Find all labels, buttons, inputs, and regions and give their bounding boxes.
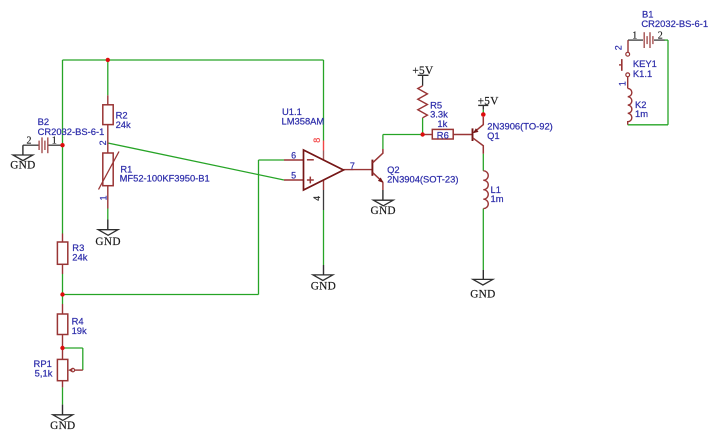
wire R3 bottom to node (62, 274, 64, 295)
ground GND (Q2) (373, 190, 393, 206)
potentiometer RP1 (34, 348, 83, 387)
wire +5V to Q1 emitter dot (482, 110, 484, 113)
wire horizontal to opamp pin6 (259, 159, 285, 161)
wire green corner to B1 (664, 39, 668, 41)
Q1 emitter (474, 117, 483, 133)
svg-text:1: 1 (98, 195, 108, 200)
U1 minus input mark (307, 159, 314, 161)
inductor K2 (628, 88, 649, 124)
svg-text:2: 2 (658, 31, 663, 42)
wire R1 bottom to GND (107, 209, 109, 220)
junction node (R4/RP1 loop) (60, 346, 64, 350)
U1 pin 8 stub (323, 141, 325, 151)
svg-text:24k: 24k (72, 252, 87, 263)
svg-text:GND: GND (50, 420, 75, 432)
resistor R6 (423, 118, 473, 140)
U1 plus input mark (307, 179, 314, 181)
U1 pin 4 stub (323, 180, 325, 190)
svg-text:6: 6 (291, 150, 296, 160)
battery B2 (23, 116, 104, 153)
KEY1 pin 1 stub (627, 77, 629, 89)
B1 plate short (652, 36, 654, 44)
wire B2 pin2 left (23, 144, 39, 146)
resistor R4 (57, 304, 87, 348)
svg-text:2N3904(SOT-23): 2N3904(SOT-23) (387, 174, 458, 185)
RP1 wiper (75, 369, 83, 371)
wire RP1 feedback loop right (82, 348, 84, 370)
svg-text:1: 1 (632, 31, 637, 42)
wire opamp pin8 to top rail (323, 60, 325, 141)
B2 plate short (44, 141, 46, 150)
wire B1 pin1 left (628, 39, 643, 41)
wire Q1 collector to L1 (482, 154, 484, 171)
wire vertical up to pin6 level (258, 160, 260, 295)
wire B2 pin1 right (48, 144, 63, 146)
svg-text:GND: GND (95, 236, 120, 248)
junction node (top rail / R2) (106, 58, 110, 62)
transistor Q2 (354, 149, 459, 190)
B2 plate tall (41, 137, 43, 153)
wire B1 pin2 right (654, 39, 665, 41)
Q2 base bar (371, 160, 373, 176)
resistor R3 (57, 234, 87, 275)
svg-text:R6: R6 (437, 129, 449, 140)
wire RP1 feedback loop top (63, 347, 83, 349)
svg-text:Q1: Q1 (487, 130, 500, 141)
U1 pin 5 stub (284, 179, 304, 181)
ground GND (R1) (98, 220, 118, 236)
junction node (+5V / Q1 emitter) (481, 112, 486, 117)
KEY1 actuator stem (619, 64, 622, 66)
B1 plate short (646, 36, 648, 44)
Q2 emitter (373, 173, 383, 183)
Q1 collector (473, 138, 484, 154)
svg-text:1m: 1m (635, 108, 648, 119)
ground GND (L1) (473, 270, 493, 285)
svg-text:GND: GND (371, 205, 396, 217)
wire opamp pin4 to GND (323, 210, 325, 265)
Q1 base bar (472, 128, 474, 141)
R1 diagonal stroke (99, 152, 120, 190)
B1 plate tall (643, 32, 645, 48)
junction node (R3/R4/opamp wire) (60, 292, 64, 296)
wire right vertical to B1 pin2 (667, 40, 669, 125)
svg-text:24k: 24k (116, 119, 131, 130)
battery B1 (628, 8, 708, 48)
ground GND (U1) (313, 265, 333, 281)
KEY1 actuator bar (621, 59, 623, 71)
svg-text:2: 2 (614, 45, 624, 50)
svg-text:1: 1 (617, 81, 627, 86)
power flag +5V (R5) (412, 65, 434, 86)
wire pin7 to Q2 base (354, 169, 373, 171)
svg-text:1m: 1m (491, 193, 504, 204)
inductor L1 (483, 171, 503, 209)
ground GND (RP1) (53, 405, 73, 421)
svg-text:GND: GND (311, 280, 336, 292)
wire diagonal R2/R1 node to opamp pin5 (108, 143, 284, 180)
KEY1 contact circle top (626, 52, 630, 56)
resistor R2 (103, 95, 131, 143)
svg-text:GND: GND (470, 289, 495, 301)
U1 pin 7 stub (344, 169, 354, 171)
op-amp U1.1 (282, 106, 355, 210)
B2 plate tall (47, 137, 49, 153)
wire Q2 collector up (382, 135, 384, 150)
U1 triangle body (304, 150, 344, 190)
resistor R5 (418, 86, 448, 120)
svg-text:GND: GND (10, 160, 35, 172)
svg-text:LM358AM: LM358AM (282, 115, 325, 126)
KEY1 pin 2 stub (627, 40, 629, 52)
junction node (B2 / left wire) (60, 143, 64, 147)
svg-text:1: 1 (52, 136, 57, 147)
wire top rail to R2 top (107, 60, 109, 95)
wire R5 bottom to junction (422, 118, 424, 135)
KEY1 contact circle bottom (626, 73, 630, 77)
ground GND (B2) (13, 145, 33, 160)
svg-text:5,1k: 5,1k (35, 367, 53, 378)
svg-text:19k: 19k (72, 325, 87, 336)
svg-text:MF52-100KF3950-B1: MF52-100KF3950-B1 (120, 173, 210, 184)
wire node to R4 top (62, 295, 64, 305)
B1 plate tall (649, 32, 651, 48)
thermistor R1 (98, 140, 210, 208)
B2 plate short (38, 141, 40, 150)
svg-text:K1.1: K1.1 (633, 68, 652, 79)
junction node (R5/R6/Q2) (420, 132, 424, 136)
Q2 collector (373, 149, 383, 163)
svg-text:2: 2 (98, 140, 108, 145)
svg-text:8: 8 (312, 138, 322, 143)
wire L1 to GND (482, 209, 484, 270)
transistor Q1 (473, 117, 553, 154)
wire K2 bottom horizontal (628, 124, 668, 126)
svg-text:5: 5 (291, 171, 296, 181)
wire RP1 bottom to GND (62, 387, 64, 404)
U1 pin 4 wire dark (323, 190, 325, 210)
svg-text:4: 4 (312, 196, 322, 201)
U1 pin 6 stub (284, 159, 304, 161)
wire top rail (63, 59, 324, 61)
svg-text:CR2032-BS-6-1: CR2032-BS-6-1 (641, 18, 708, 29)
wire left vertical (top rail to R3) (62, 60, 64, 234)
svg-text:2: 2 (27, 136, 32, 147)
power flag +5V (Q1) (478, 96, 500, 110)
switch KEY1 (614, 40, 657, 88)
wire node horizontal to opamp column (63, 294, 259, 296)
wire Q2 collector to R5/R6 junction (383, 134, 423, 136)
svg-text:1k: 1k (437, 118, 447, 129)
svg-text:CR2032-BS-6-1: CR2032-BS-6-1 (38, 126, 105, 137)
